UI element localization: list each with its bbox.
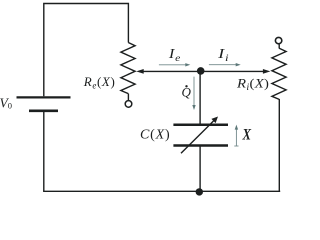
arrowhead into Re (pointing left) <box>136 69 144 74</box>
current arrow Ii (gray, right) <box>209 64 237 66</box>
resistor Ri(X) zigzag <box>272 48 286 99</box>
current arrow Ie (gray, right) <box>159 64 187 66</box>
capacitor C(X) bottom plate <box>173 144 228 147</box>
svg-text:X: X <box>242 126 252 144</box>
wiper wire between Re and Ri (with arrowheads both ends) <box>142 70 265 72</box>
resistor Re(X) zigzag <box>121 43 135 94</box>
wire top (battery + to Re top) <box>44 4 129 97</box>
variable-capacitor diagonal arrow <box>181 121 214 154</box>
battery V0 bottom plate <box>29 110 58 113</box>
wire Re bottom stub <box>127 94 129 101</box>
wire left lower (battery - to bottom rail) <box>43 112 45 191</box>
wire Ri top stub <box>278 44 280 48</box>
svg-text:Re(X): Re(X) <box>83 74 116 90</box>
wire node to capacitor top <box>199 74 201 124</box>
wire capacitor bottom to bottom rail <box>199 147 201 192</box>
arrowhead into Ri (pointing right) <box>263 69 271 74</box>
junction dot (wiper node) <box>197 67 205 75</box>
terminal circle below Re <box>125 101 132 108</box>
capacitor C(X) top plate <box>173 123 228 126</box>
heat flow arrow Q (gray, down) <box>193 77 195 107</box>
wire right vertical (bottom rail to Ri bottom) <box>278 99 280 191</box>
svg-text:Ri(X): Ri(X) <box>236 77 269 93</box>
junction dot (bottom rail) <box>196 188 203 195</box>
wire bottom rail <box>43 190 280 192</box>
svg-text:C(X): C(X) <box>140 127 170 142</box>
resistor Ri(X): terminal circle on top <box>275 37 281 43</box>
battery V0 top plate <box>17 96 71 98</box>
gap dimension arrow X (gray, up) <box>234 145 238 147</box>
